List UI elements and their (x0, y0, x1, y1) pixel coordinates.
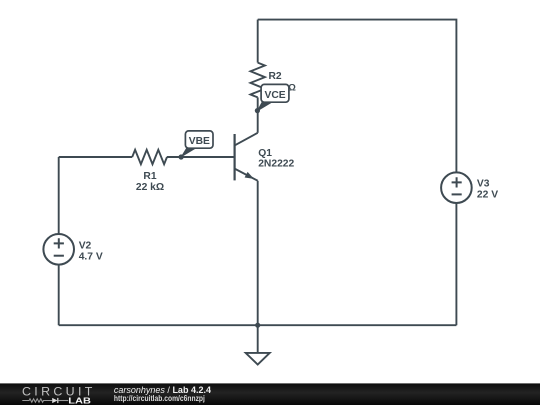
svg-text:VBE: VBE (189, 136, 210, 147)
svg-text:2N2222: 2N2222 (258, 159, 294, 170)
svg-text:4.7 V: 4.7 V (79, 251, 103, 262)
svg-text:V3: V3 (477, 178, 490, 189)
svg-text:Ω: Ω (288, 82, 296, 93)
svg-text:R1: R1 (143, 171, 156, 182)
svg-text:22 V: 22 V (477, 189, 498, 200)
svg-text:V2: V2 (79, 240, 92, 251)
svg-text:22 kΩ: 22 kΩ (136, 182, 164, 193)
svg-text:R2: R2 (269, 71, 282, 82)
svg-text:http://circuitlab.com/c6nnzpj: http://circuitlab.com/c6nnzpj (114, 393, 205, 403)
svg-text:VCE: VCE (265, 90, 286, 101)
svg-text:LAB: LAB (68, 395, 91, 405)
svg-text:Q1: Q1 (258, 148, 272, 159)
